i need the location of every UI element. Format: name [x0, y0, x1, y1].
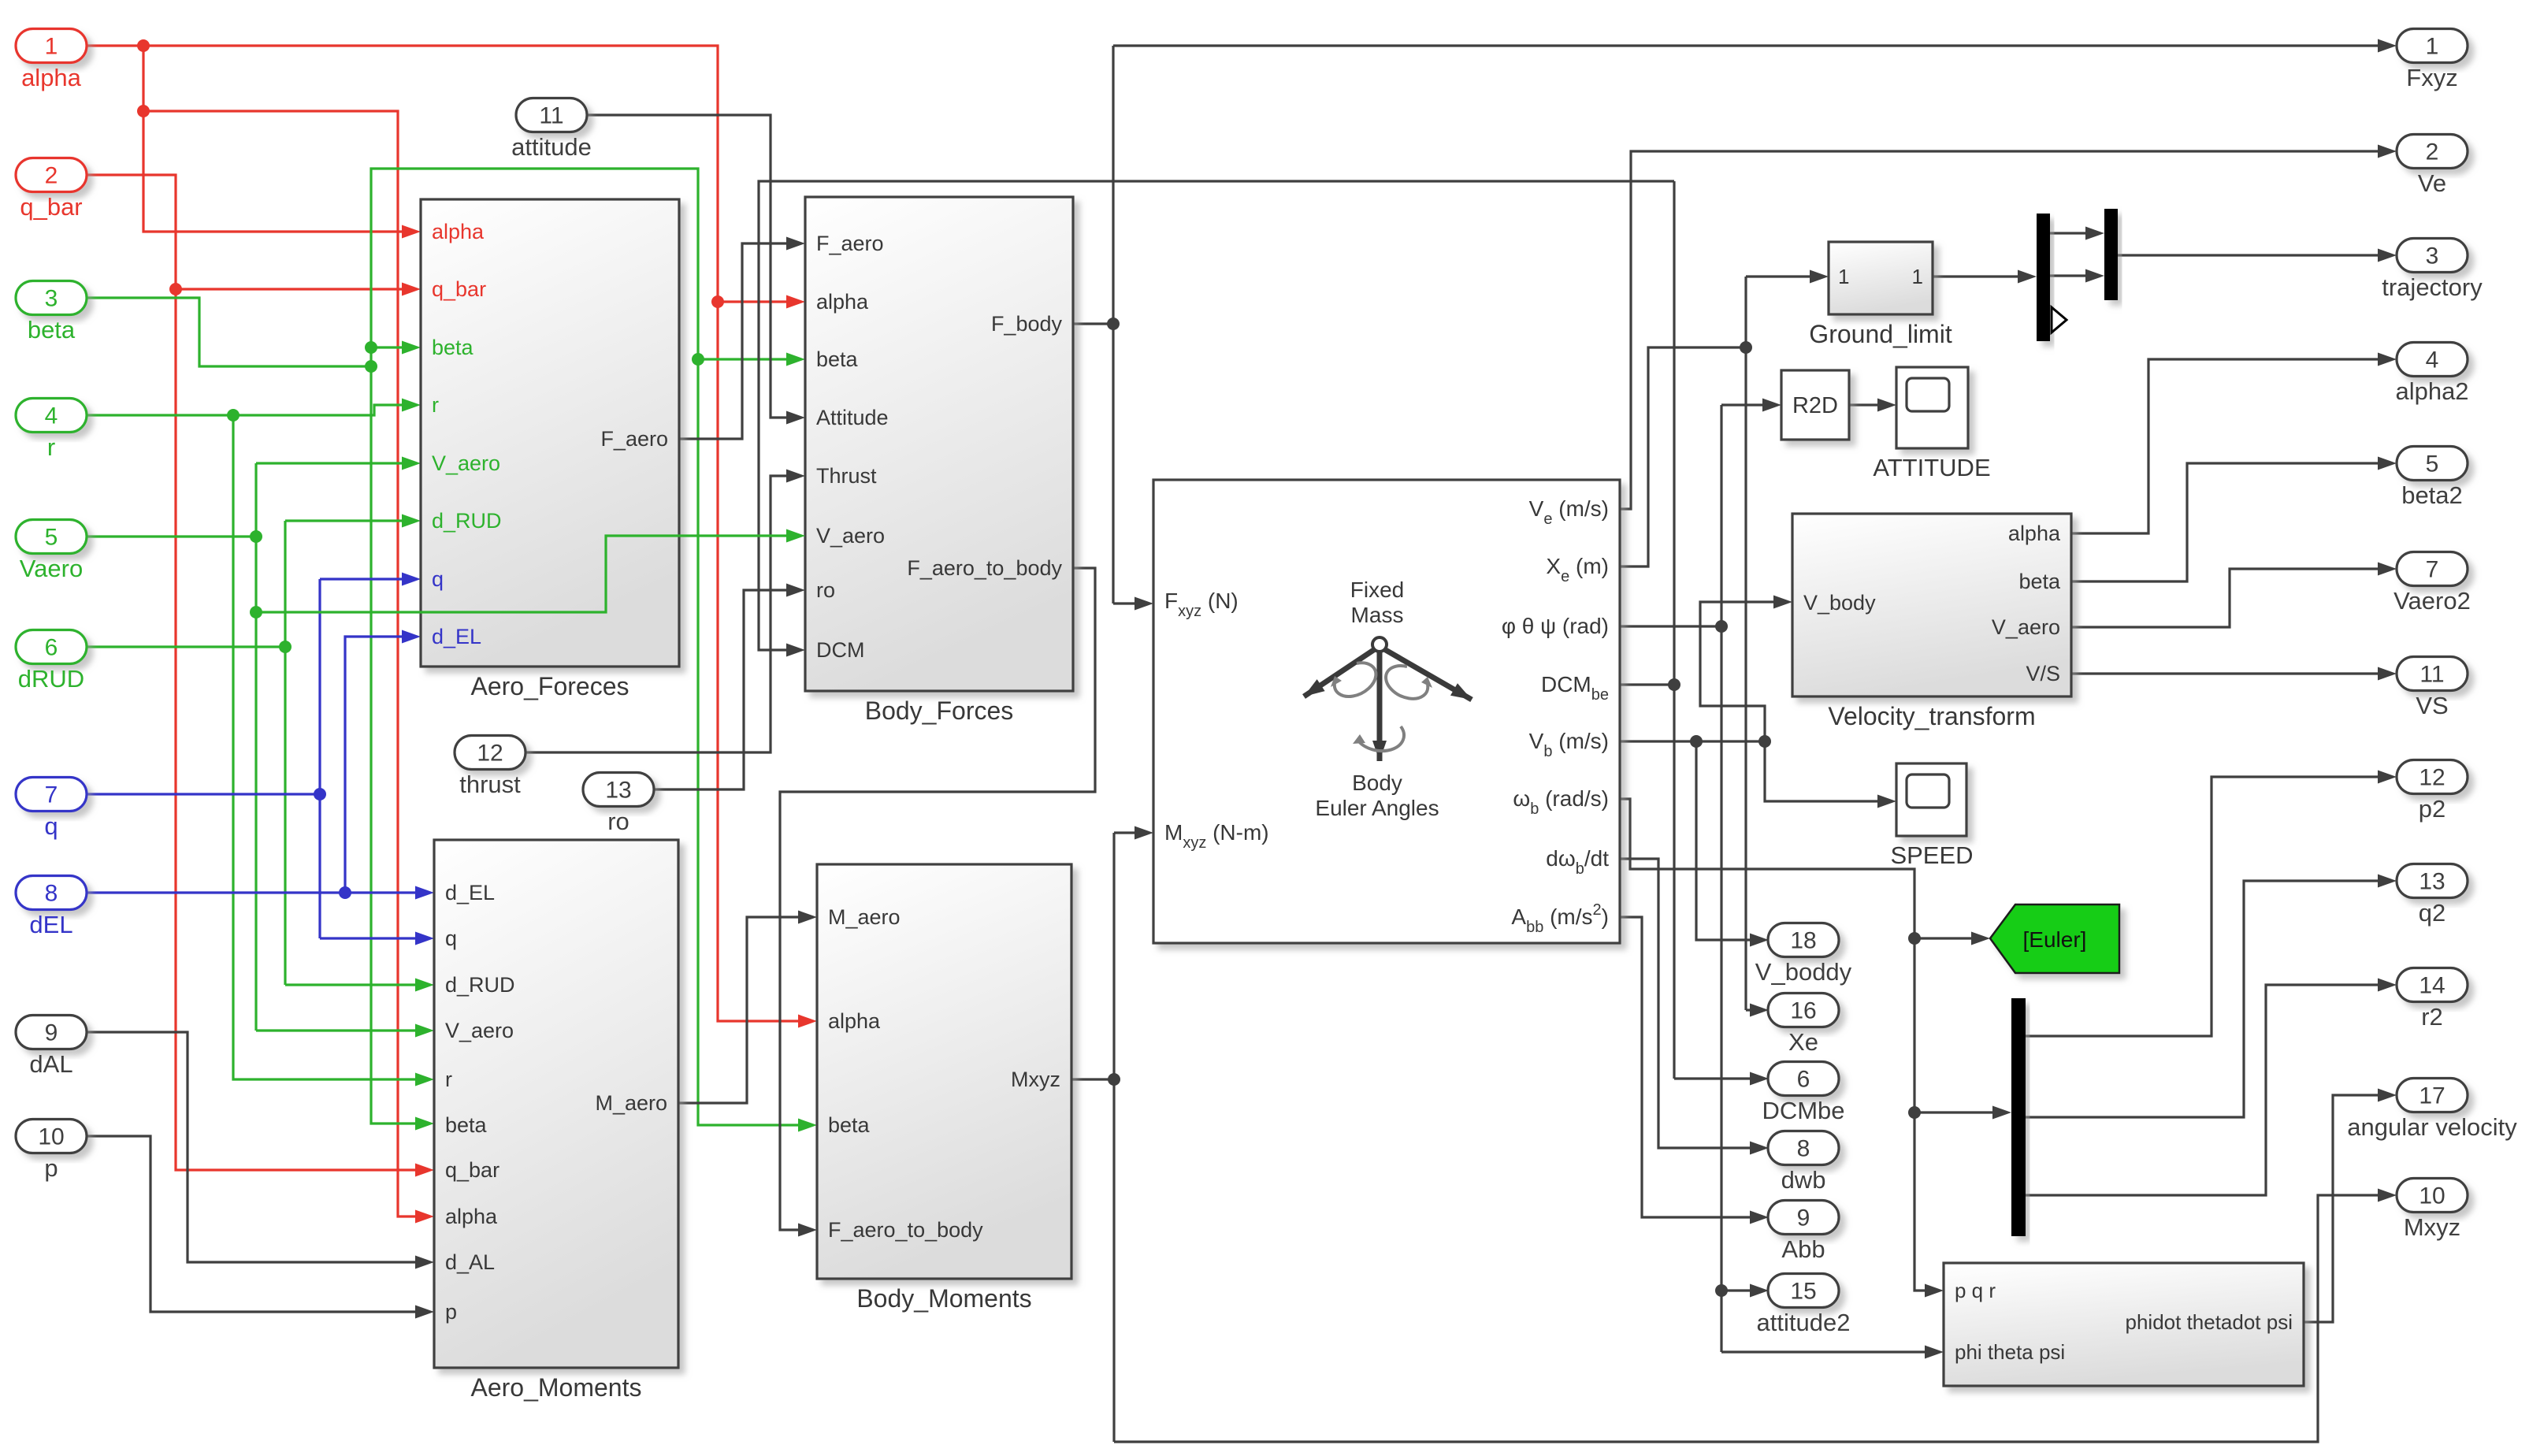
svg-text:Ve: Ve — [2418, 169, 2446, 197]
wire Mxyz trunk to 6DOF M_xyz and port10 Mxyz — [1071, 1078, 1114, 1080]
output port 8 dwb — [1768, 1131, 1839, 1165]
svg-text:p2: p2 — [2419, 795, 2445, 823]
svg-text:thrust: thrust — [459, 771, 521, 798]
wire Velocity_transform alpha to port4 alpha2 — [2071, 359, 2391, 533]
svg-text:[Euler]: [Euler] — [2023, 927, 2087, 952]
svg-text:8: 8 — [1797, 1136, 1810, 1162]
svg-text:r: r — [47, 433, 55, 461]
subsystem block Aero_Foreces — [421, 199, 679, 667]
svg-text:d_EL: d_EL — [432, 625, 481, 648]
svg-text:12: 12 — [477, 741, 503, 767]
svg-text:9: 9 — [1797, 1205, 1810, 1231]
svg-text:2: 2 — [2426, 139, 2439, 165]
input port 5 Vaero — [16, 520, 87, 554]
junction alpha at (911,383) — [711, 295, 724, 308]
wire Velocity_transform beta to port5 beta2 — [2071, 463, 2391, 581]
subsystem block Body_Forces — [805, 197, 1073, 691]
svg-text:angular velocity: angular velocity — [2347, 1113, 2517, 1141]
wire F_aero_to_body from Body_Forces to Body_Moments — [780, 568, 1095, 1230]
svg-text:V_aero: V_aero — [445, 1019, 514, 1042]
wire q_bar net: port2 down to Aero_Moments q_bar — [87, 175, 429, 1170]
svg-text:1: 1 — [2426, 34, 2439, 60]
wire X_e to Ground_limit and port16 Xe — [1620, 347, 1746, 566]
wire Vaero branch crossing block to Body_Forces V_aero — [256, 536, 800, 612]
wire R2D to ATTITUDE scope — [1849, 403, 1891, 406]
input port 2 q_bar — [16, 158, 87, 192]
output port 9 Abb — [1768, 1201, 1839, 1235]
svg-text:Fxyz: Fxyz — [2406, 64, 2457, 91]
svg-text:DCMbe: DCMbe — [1762, 1097, 1844, 1124]
svg-text:DCM: DCM — [816, 638, 865, 662]
output port 15 attitude2 — [1768, 1274, 1839, 1308]
svg-text:V_body: V_body — [1803, 591, 1876, 615]
svg-text:Mxyz: Mxyz — [2404, 1213, 2460, 1241]
svg-text:F_aero: F_aero — [600, 427, 668, 451]
input port 6 dRUD — [16, 630, 87, 664]
demux for p2 q2 r2 — [2011, 998, 2026, 1236]
output port 4 alpha2 — [2397, 343, 2468, 377]
wire Vaero to Aero_Moments V_aero — [256, 1029, 429, 1031]
wire beta branch to Body_Forces beta — [698, 358, 800, 360]
svg-text:V/S: V/S — [2026, 662, 2060, 685]
svg-text:Aero_Foreces: Aero_Foreces — [471, 672, 629, 700]
wire ro from port13 to Body_Forces ro — [654, 590, 800, 789]
wire V_b branch to SPEED scope — [1765, 741, 1891, 801]
svg-text:Mass: Mass — [1351, 603, 1404, 627]
svg-text:1: 1 — [1912, 265, 1923, 288]
subsystem block Ground_limit — [1829, 242, 1933, 314]
input port 7 q — [16, 778, 87, 812]
svg-text:Euler Angles: Euler Angles — [1315, 796, 1439, 820]
wire Vaero net stub from port5 — [87, 535, 256, 537]
input port 8 dEL — [16, 876, 87, 910]
svg-text:Ground_limit: Ground_limit — [1809, 320, 1952, 348]
junction F_body (1413,411) — [1107, 318, 1120, 330]
svg-text:phidot thetadot psi: phidot thetadot psi — [2126, 1310, 2293, 1334]
R2D radians to degrees block — [1781, 370, 1849, 440]
junction omega_b (2430,1191) — [1908, 932, 1921, 945]
wire Velocity_transform V/S to port11 VS — [2071, 672, 2391, 674]
wire Vaero to Aero_Foreces V_aero — [256, 462, 415, 464]
svg-text:d_EL: d_EL — [445, 881, 495, 904]
output port 7 Vaero2 — [2397, 552, 2468, 586]
svg-text:1: 1 — [45, 34, 58, 60]
junction alpha at (182,58) — [137, 39, 150, 52]
wire demux2 output1 to port12 p2 — [2026, 777, 2391, 1036]
svg-text:10: 10 — [38, 1124, 64, 1150]
svg-text:VS: VS — [2416, 692, 2448, 719]
output port 11 VS — [2397, 657, 2468, 691]
wire r net to Aero_Foreces r — [87, 405, 415, 415]
svg-text:beta: beta — [2018, 570, 2061, 593]
wire dAL from port9 to Aero_Moments d_AL — [87, 1032, 429, 1262]
input port 9 dAL — [16, 1016, 87, 1049]
output port 6 DCMbe — [1768, 1062, 1839, 1096]
wire q vertical trunk — [318, 579, 321, 938]
svg-text:q_bar: q_bar — [20, 193, 82, 221]
junction phi-theta-psi (2185,1638) — [1715, 1284, 1728, 1297]
wire dEL from port8 to Aero_Moments d_EL — [87, 891, 429, 893]
svg-text:attitude: attitude — [511, 133, 592, 161]
svg-text:Body: Body — [1352, 771, 1402, 795]
wire alpha branch to Aero_Moments alpha — [143, 111, 429, 1216]
svg-text:6: 6 — [1797, 1067, 1810, 1093]
svg-text:17: 17 — [2419, 1083, 2445, 1109]
svg-text:11: 11 — [2419, 662, 2444, 688]
wire demux2 output3 to port14 r2 — [2026, 985, 2391, 1195]
wire omega_b to Euler tag, demux and pqr block — [1620, 799, 1938, 1291]
svg-text:7: 7 — [2426, 557, 2439, 583]
svg-text:ro: ro — [816, 578, 835, 602]
svg-text:3: 3 — [2426, 243, 2439, 269]
junction q_bar at (223,367) — [169, 283, 182, 295]
wire r branch to Aero_Moments r — [233, 415, 429, 1079]
svg-text:3: 3 — [45, 286, 58, 312]
svg-text:8: 8 — [45, 881, 58, 907]
svg-text:φ θ ψ (rad): φ θ ψ (rad) — [1502, 614, 1609, 638]
svg-text:alpha2: alpha2 — [2395, 377, 2468, 405]
svg-text:Aero_Moments: Aero_Moments — [471, 1373, 642, 1402]
svg-text:Vaero2: Vaero2 — [2393, 587, 2471, 615]
junction beta (471,441) — [365, 341, 377, 354]
junction q (406,1008) — [314, 788, 326, 800]
svg-text:d_RUD: d_RUD — [445, 973, 515, 997]
junction phi-theta-psi (2185,795) — [1715, 620, 1728, 633]
svg-text:6: 6 — [45, 635, 58, 661]
svg-text:beta: beta — [28, 316, 76, 344]
svg-text:15: 15 — [1790, 1279, 1816, 1305]
output port 13 q2 — [2397, 864, 2468, 898]
svg-text:trajectory: trajectory — [2382, 273, 2483, 301]
svg-text:16: 16 — [1790, 998, 1816, 1024]
svg-text:dwb: dwb — [1781, 1166, 1826, 1194]
svg-text:Fixed: Fixed — [1350, 578, 1404, 602]
svg-text:beta: beta — [828, 1113, 871, 1137]
input port 4 r — [16, 399, 87, 433]
svg-text:alpha: alpha — [445, 1205, 498, 1228]
svg-text:5: 5 — [45, 525, 58, 551]
output port 1 Fxyz — [2397, 29, 2468, 63]
svg-text:V_aero: V_aero — [432, 451, 500, 475]
output port 14 r2 — [2397, 968, 2468, 1002]
svg-text:q_bar: q_bar — [432, 277, 486, 301]
svg-text:q_bar: q_bar — [445, 1158, 499, 1182]
wire Vaero vertical trunk — [254, 463, 257, 1031]
wire thrust from port12 to Body_Forces Thrust — [525, 476, 800, 752]
input port 10 p — [16, 1120, 87, 1153]
wire alpha net: port1 to Body_Forces/Body_Moments alpha — [87, 46, 811, 1021]
junction beta (471,465) — [365, 360, 377, 373]
SPEED scope — [1896, 763, 1966, 836]
svg-text:alpha: alpha — [432, 220, 485, 243]
wire mux output to port3 trajectory — [2118, 254, 2391, 256]
junction Vaero (325,777) — [250, 606, 262, 618]
junction DCM_be (2125,869) — [1668, 678, 1680, 691]
svg-text:d_RUD: d_RUD — [432, 509, 502, 533]
junction V_b (2153,941) — [1690, 735, 1703, 748]
svg-text:Body_Forces: Body_Forces — [865, 696, 1014, 725]
svg-text:10: 10 — [2419, 1183, 2445, 1209]
svg-text:Body_Moments: Body_Moments — [856, 1284, 1031, 1313]
wire DCM_be feedback to Body_Forces DCM and port6 DCMbe — [1620, 683, 1674, 685]
svg-text:V_aero: V_aero — [1992, 615, 2060, 639]
svg-text:2: 2 — [45, 163, 58, 189]
wire V_e to port2 Ve — [1620, 151, 2391, 509]
wire dRUD to Aero_Foreces d_RUD — [285, 519, 415, 522]
svg-text:1: 1 — [1838, 265, 1849, 288]
wire V_b branch to Velocity_transform V_body — [1700, 602, 1787, 741]
wire demux output 1 to mux — [2049, 232, 2099, 234]
svg-text:Thrust: Thrust — [816, 464, 877, 488]
wire beta branch to Aero_Foreces beta — [371, 346, 415, 348]
input port 11 attitude — [516, 98, 587, 132]
svg-text:Xe: Xe — [1788, 1028, 1818, 1056]
unconnected demux output arrow — [2052, 307, 2067, 332]
goto tag [Euler] — [1990, 904, 2119, 973]
output port 18 V_boddy — [1768, 923, 1839, 957]
svg-text:11: 11 — [539, 103, 563, 129]
svg-text:beta2: beta2 — [2401, 481, 2463, 509]
6DOF Fixed Mass Euler Angles block — [1153, 480, 1620, 943]
output port 10 Mxyz — [2397, 1179, 2468, 1213]
svg-text:ro: ro — [607, 808, 629, 835]
output port 12 p2 — [2397, 760, 2468, 794]
output port 3 trajectory — [2397, 239, 2468, 273]
junction Vaero (325,681) — [250, 530, 262, 543]
junction omega_b (2430,1412) — [1908, 1106, 1921, 1119]
svg-text:q: q — [44, 812, 58, 840]
svg-text:9: 9 — [45, 1020, 58, 1046]
svg-text:13: 13 — [2419, 869, 2445, 895]
svg-text:dAL: dAL — [29, 1050, 72, 1078]
input port 13 ro — [583, 773, 654, 807]
output port 17 angular velocity — [2397, 1079, 2468, 1112]
svg-text:13: 13 — [605, 778, 631, 804]
svg-text:r: r — [445, 1068, 452, 1091]
junction Mxyz (1414,1370) — [1108, 1073, 1120, 1086]
svg-text:r: r — [432, 393, 439, 417]
svg-text:12: 12 — [2419, 765, 2445, 791]
svg-text:attitude2: attitude2 — [1757, 1309, 1851, 1336]
junction beta (886,456) — [692, 353, 704, 366]
svg-text:Mxyz: Mxyz — [1011, 1068, 1060, 1091]
svg-text:beta: beta — [816, 347, 859, 371]
wire demux output 2 to mux — [2049, 274, 2099, 277]
demux after Ground_limit — [2037, 214, 2050, 341]
wire q to Aero_Foreces q — [320, 578, 415, 580]
svg-text:dEL: dEL — [29, 911, 72, 938]
subsystem block Body_Moments — [817, 864, 1071, 1279]
wire dEL branch to Aero_Foreces d_EL — [345, 637, 415, 893]
ATTITUDE scope — [1896, 367, 1968, 448]
junction dRUD (362,821) — [279, 641, 292, 653]
wire beta branch to Aero_Moments beta — [371, 366, 429, 1124]
wire attitude from port11 to Body_Forces Attitude — [586, 115, 800, 418]
input port 3 beta — [16, 281, 87, 315]
svg-text:14: 14 — [2419, 973, 2445, 999]
mux to trajectory — [2104, 209, 2118, 300]
subsystem block pqr to euler-rates — [1944, 1263, 2304, 1386]
6DOF icon arrows — [1372, 637, 1387, 652]
input port 1 alpha — [16, 29, 87, 63]
svg-text:alpha: alpha — [828, 1009, 881, 1033]
svg-text:M_aero: M_aero — [595, 1091, 667, 1115]
svg-text:p: p — [44, 1154, 58, 1182]
svg-text:F_aero_to_body: F_aero_to_body — [828, 1218, 983, 1242]
svg-text:Attitude: Attitude — [816, 406, 889, 429]
svg-text:R2D: R2D — [1792, 393, 1838, 418]
wire Ground_limit output to demux — [1933, 275, 2031, 277]
svg-text:4: 4 — [2426, 347, 2439, 373]
svg-text:F_body: F_body — [991, 312, 1063, 336]
output port 16 Xe — [1768, 994, 1839, 1027]
svg-text:Velocity_transform: Velocity_transform — [1828, 702, 2035, 730]
wire A_bb to port9 Abb — [1620, 917, 1763, 1217]
wire alpha branch to Aero_Foreces alpha — [143, 46, 415, 232]
wire q to Aero_Moments q — [320, 937, 429, 939]
svg-text:5: 5 — [2426, 451, 2439, 477]
wire V_b branch to port18 V_boddy — [1696, 741, 1763, 940]
wire Velocity_transform V_aero to port7 Vaero2 — [2071, 569, 2391, 627]
svg-text:M_aero: M_aero — [828, 905, 901, 929]
svg-text:F_aero: F_aero — [816, 232, 884, 255]
svg-text:7: 7 — [45, 782, 58, 808]
svg-text:V_aero: V_aero — [816, 524, 885, 548]
wire domega_b/dt to port8 dwb — [1620, 859, 1763, 1148]
junction alpha at (182,141) — [137, 105, 150, 117]
svg-text:4: 4 — [45, 403, 58, 429]
junction V_b (2240,941) — [1758, 735, 1771, 748]
svg-text:F_aero_to_body: F_aero_to_body — [907, 556, 1062, 580]
wire p from port10 to Aero_Moments p — [87, 1136, 429, 1312]
output port 2 Ve — [2397, 135, 2468, 169]
subsystem block Velocity_transform — [1792, 514, 2071, 696]
svg-text:q2: q2 — [2419, 899, 2445, 927]
svg-text:dRUD: dRUD — [18, 665, 84, 693]
svg-text:beta: beta — [445, 1113, 488, 1137]
junction X_e (2216,441) — [1740, 341, 1752, 354]
svg-text:q: q — [445, 927, 457, 950]
wire F_body trunk to Fxyz port and 6DOF F_xyz — [1073, 322, 1113, 325]
svg-text:phi theta psi: phi theta psi — [1955, 1340, 2065, 1364]
svg-text:q: q — [432, 567, 444, 591]
wire alpha branch to Body_Forces alpha — [718, 300, 800, 303]
wire V_b trunk — [1620, 740, 1765, 742]
svg-text:ATTITUDE: ATTITUDE — [1873, 454, 1990, 481]
wire dRUD to Aero_Moments d_RUD — [285, 983, 429, 986]
wire M_aero from Aero_Moments to Body_Moments — [678, 917, 811, 1103]
svg-text:SPEED: SPEED — [1890, 841, 1973, 869]
svg-text:18: 18 — [1790, 928, 1816, 954]
wire F_aero from Aero_Foreces to Body_Forces — [679, 243, 800, 439]
wire phi-theta-psi to R2D, attitude2 and pqr block — [1620, 625, 1721, 627]
svg-text:Vaero: Vaero — [20, 555, 83, 582]
wire phidot thetadot psi to port17 angular velocity — [2304, 1095, 2391, 1322]
svg-text:alpha: alpha — [21, 64, 82, 91]
input port 12 thrust — [455, 736, 525, 770]
svg-text:p q r: p q r — [1955, 1279, 1996, 1302]
wire dRUD vertical trunk — [284, 521, 286, 985]
subsystem block Aero_Moments — [434, 840, 678, 1368]
svg-text:Abb: Abb — [1781, 1235, 1825, 1263]
wire q_bar branch to Aero_Foreces q_bar — [176, 288, 415, 290]
svg-text:alpha: alpha — [816, 290, 869, 314]
svg-text:p: p — [445, 1300, 457, 1324]
junction dEL (438,1133) — [339, 886, 351, 899]
output port 5 beta2 — [2397, 447, 2468, 481]
svg-text:r2: r2 — [2421, 1003, 2443, 1031]
wire beta net trunk — [87, 298, 371, 366]
junction r (296,527) — [227, 409, 240, 422]
wire demux2 output2 to port13 q2 — [2026, 881, 2391, 1117]
wire dRUD stub from port6 — [87, 645, 285, 648]
svg-text:alpha: alpha — [2008, 522, 2061, 545]
wire q stub from port7 — [87, 793, 320, 795]
svg-text:V_boddy: V_boddy — [1755, 958, 1852, 986]
svg-text:d_AL: d_AL — [445, 1250, 495, 1274]
svg-text:beta: beta — [432, 336, 474, 359]
